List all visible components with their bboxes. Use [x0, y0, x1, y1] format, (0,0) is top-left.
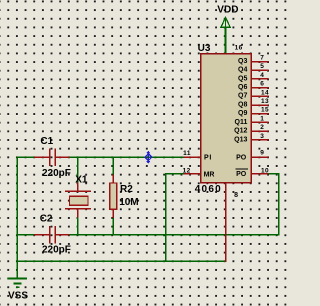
svg-text:10M: 10M: [119, 197, 138, 208]
svg-text:Q6: Q6: [238, 84, 247, 91]
wire: MR horizontal: [166, 173, 184, 175]
pin Q13 stub: [251, 139, 269, 141]
wire: crystal bottom branch vertical: [77, 217, 79, 235]
svg-text:1: 1: [260, 115, 264, 122]
wire: crystal top branch vertical: [77, 157, 79, 183]
resistor R2: [110, 174, 117, 218]
svg-text:X1: X1: [75, 175, 88, 186]
svg-text:2: 2: [260, 124, 264, 131]
wire: left ground rail vertical: [16, 157, 18, 279]
svg-text:VSS: VSS: [8, 291, 28, 302]
svg-text:7: 7: [260, 55, 264, 62]
wire: PO-bar horizontal to pin 10: [269, 173, 280, 175]
svg-text:Q8: Q8: [238, 101, 247, 108]
wire: crystal row long segment to PO-bar riser: [70, 234, 280, 236]
crystal X1: [65, 183, 91, 218]
svg-text:MR: MR: [204, 172, 215, 179]
wire: top row C1 left segment: [17, 156, 35, 158]
pin MR stub (12): [183, 173, 200, 175]
capacitor C2: [34, 226, 69, 244]
node origin marker: [145, 152, 152, 163]
svg-text:PI: PI: [204, 154, 212, 161]
svg-text:U3: U3: [198, 43, 211, 54]
power VDD symbol arrow: [221, 17, 230, 27]
svg-text:14: 14: [261, 89, 269, 96]
wire: VDD to pin 16 vertical: [225, 27, 227, 54]
svg-text:220pF: 220pF: [42, 168, 71, 179]
svg-text:12: 12: [183, 167, 191, 174]
IC U3 body (4060): [201, 54, 252, 183]
svg-text:4060: 4060: [195, 184, 222, 195]
svg-text:9: 9: [260, 150, 264, 157]
svg-text:PO: PO: [236, 155, 247, 162]
svg-text:Q13: Q13: [234, 136, 247, 143]
svg-text:220pF: 220pF: [42, 245, 71, 256]
wire: MR branch vertical down to ground row: [165, 173, 167, 262]
svg-text:Q5: Q5: [238, 75, 247, 82]
pin Q12 stub: [251, 130, 269, 132]
svg-text:6: 6: [260, 81, 264, 88]
svg-text:16: 16: [235, 45, 243, 52]
svg-text:10: 10: [261, 168, 269, 175]
wire: R2 top branch vertical: [112, 157, 114, 175]
svg-text:VDD: VDD: [217, 5, 238, 16]
pin Q7 stub: [251, 95, 269, 97]
svg-text:C2: C2: [40, 214, 53, 225]
svg-text:13: 13: [261, 98, 269, 105]
svg-text:5: 5: [260, 63, 264, 70]
pin PO stub (9): [251, 156, 269, 158]
pin 8 wire down: [225, 183, 227, 262]
svg-text:Q3: Q3: [238, 58, 247, 65]
svg-text:3: 3: [260, 133, 264, 140]
svg-text:15: 15: [261, 107, 269, 114]
svg-text:Q12: Q12: [234, 128, 247, 135]
pin name PO-bar overline: [236, 168, 248, 170]
pin Q6 stub: [251, 87, 269, 89]
wire: ground row horizontal: [17, 260, 227, 262]
wire: R2 bottom branch vertical: [112, 218, 114, 236]
svg-text:Q4: Q4: [238, 67, 247, 74]
svg-text:C1: C1: [40, 136, 53, 147]
pin Q5 stub: [251, 78, 269, 80]
wire: PO-bar riser vertical: [278, 174, 280, 236]
svg-text:Q9: Q9: [238, 110, 247, 117]
svg-text:4: 4: [260, 72, 264, 79]
svg-text:11: 11: [183, 150, 191, 157]
wire: crystal row left segment (to C2): [17, 234, 35, 236]
pin Q8 stub: [251, 104, 269, 106]
pin Q3 stub: [251, 61, 269, 63]
pin Q11 stub: [251, 121, 269, 123]
pin Q4 stub: [251, 69, 269, 71]
ground VSS symbol: [8, 261, 27, 287]
svg-text:Q11: Q11: [235, 119, 248, 126]
svg-text:8: 8: [234, 192, 238, 199]
svg-text:R2: R2: [120, 184, 133, 195]
pin PI stub (11): [183, 156, 200, 158]
svg-text:Q7: Q7: [238, 93, 247, 100]
wire: top row C1 right to PI pin: [70, 156, 184, 158]
capacitor C1: [34, 148, 69, 166]
svg-text:PO: PO: [236, 171, 247, 178]
pin Q9 stub: [251, 113, 269, 115]
pin PO-bar stub (10): [251, 173, 269, 175]
